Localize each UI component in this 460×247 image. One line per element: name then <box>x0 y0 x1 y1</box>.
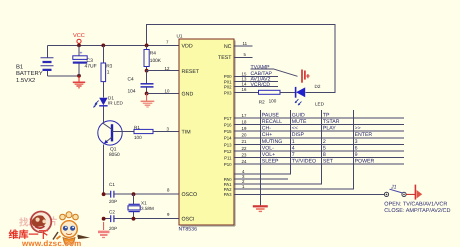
wire switch to port <box>406 193 415 195</box>
svg-text:www.dzsc.com: www.dzsc.com <box>21 239 81 247</box>
matrix row wire pin24 <box>234 159 404 164</box>
wire diagonal to port <box>273 69 298 77</box>
svg-text:P13: P13 <box>224 142 232 147</box>
svg-text:TV/AMP: TV/AMP <box>251 64 271 70</box>
diode D1 IR LED <box>93 98 107 122</box>
svg-text:CLOSE: AMP/TAP/AV2/CD: CLOSE: AMP/TAP/AV2/CD <box>384 208 450 214</box>
svg-text:100K: 100K <box>150 58 162 64</box>
wire PA1 stub <box>234 178 288 180</box>
note text OPEN/CLOSE <box>384 201 450 214</box>
label D1 IR LED <box>108 95 123 105</box>
svg-text:C2: C2 <box>109 209 115 214</box>
matrix column 4 <box>234 110 353 189</box>
svg-text:R4: R4 <box>150 50 156 56</box>
svg-text:C4: C4 <box>128 77 134 83</box>
svg-text:9: 9 <box>355 152 358 158</box>
svg-text:OSCO: OSCO <box>182 192 198 198</box>
svg-text:1: 1 <box>292 139 295 145</box>
svg-text:8: 8 <box>323 152 326 158</box>
svg-text:7: 7 <box>292 152 295 158</box>
capacitor C4 104 <box>141 71 154 94</box>
svg-text:TEST: TEST <box>218 55 232 61</box>
junction battery bottom <box>77 74 81 78</box>
svg-text:IR LED: IR LED <box>108 100 123 105</box>
svg-text:PAUSE: PAUSE <box>262 112 280 118</box>
watermark mascot <box>53 212 90 245</box>
svg-text:23: 23 <box>242 152 247 157</box>
wire OSCI <box>104 212 179 219</box>
wire Q1 base <box>112 131 134 133</box>
label C2 20P <box>109 209 117 231</box>
svg-text:OSCI: OSCI <box>182 217 195 223</box>
label R4 100K <box>150 50 162 64</box>
svg-text:VDD: VDD <box>182 43 193 49</box>
svg-text:CH+: CH+ <box>262 132 273 138</box>
svg-text:24: 24 <box>242 159 247 164</box>
matrix row wire pin18 <box>234 119 404 124</box>
matrix row wire pin21 <box>234 139 404 144</box>
wire VCC rail <box>47 44 179 46</box>
svg-text:SLEEP: SLEEP <box>262 159 279 165</box>
watermark seal <box>31 212 52 233</box>
matrix row wire pin19 <box>234 126 404 131</box>
wire TEST stub pin 5 <box>234 52 252 57</box>
svg-text:100: 100 <box>134 135 142 140</box>
junction VCC/C3 <box>77 44 81 48</box>
label X1 3.58M <box>141 201 154 211</box>
resistor R2 100 <box>259 90 296 94</box>
watermark ghost text <box>19 216 58 229</box>
svg-text:P14: P14 <box>224 136 232 141</box>
svg-text:GUID: GUID <box>292 112 305 118</box>
svg-text:<<: << <box>292 126 298 132</box>
svg-text:P10: P10 <box>224 162 232 167</box>
svg-text:12: 12 <box>165 66 170 71</box>
switch J1 <box>384 185 406 197</box>
ground (battery) <box>73 76 85 88</box>
pin number 7 <box>166 40 169 45</box>
matrix column 2 <box>234 110 291 174</box>
key labels column 4 <box>355 126 375 165</box>
svg-text:C1: C1 <box>109 182 115 187</box>
matrix column 1 <box>259 110 261 206</box>
wire P03 pin 16 <box>234 87 259 92</box>
label R1 100 <box>134 125 142 140</box>
key labels column 1 <box>262 112 282 164</box>
svg-text:R3: R3 <box>106 63 112 69</box>
svg-text:MUTE: MUTE <box>292 119 307 125</box>
svg-text:22: 22 <box>242 146 247 151</box>
svg-text:19: 19 <box>242 126 247 131</box>
wire NC stub pin 11 <box>234 41 252 46</box>
junction X1 bottom <box>132 217 136 221</box>
svg-text:P02: P02 <box>224 85 232 90</box>
label C4 104 <box>128 77 136 95</box>
matrix row wire pin20 <box>234 133 404 138</box>
svg-text:VOL-: VOL- <box>262 145 274 151</box>
svg-text:VCR/CD: VCR/CD <box>251 82 271 88</box>
svg-text:4: 4 <box>292 145 295 151</box>
svg-text:VOL+: VOL+ <box>262 152 275 158</box>
label R2 100 <box>259 98 277 104</box>
svg-text:>>: >> <box>355 126 361 132</box>
resistor R3 <box>101 45 106 97</box>
svg-text:R2: R2 <box>259 99 265 104</box>
svg-text:8050: 8050 <box>109 152 120 158</box>
matrix row wire pin22 <box>234 146 404 151</box>
svg-text:104: 104 <box>128 89 136 95</box>
svg-text:1: 1 <box>107 70 110 76</box>
svg-text:TP: TP <box>323 112 330 118</box>
svg-text:PA3: PA3 <box>224 192 232 197</box>
svg-text:100: 100 <box>269 98 277 103</box>
svg-text:16: 16 <box>242 87 247 92</box>
svg-text:Q1: Q1 <box>110 146 117 152</box>
svg-text:R1: R1 <box>134 125 140 130</box>
ground (reset C4) <box>141 94 155 108</box>
svg-text:DISP: DISP <box>292 132 305 138</box>
junction VCC/R4 <box>145 44 149 48</box>
wire OSCO <box>104 187 179 194</box>
svg-text:ENTER: ENTER <box>355 132 373 138</box>
junction emitter rail / C2 <box>102 217 106 221</box>
svg-text:NC: NC <box>224 44 232 50</box>
svg-text:MUTING: MUTING <box>262 139 282 145</box>
key labels column 3 <box>323 112 340 164</box>
svg-text:P03: P03 <box>224 90 232 95</box>
junction VCC/R3 <box>101 44 105 48</box>
junction GND node <box>145 92 149 96</box>
crystal X1 3.58M <box>128 194 140 219</box>
svg-text:21: 21 <box>242 139 247 144</box>
svg-text:1.5VX2: 1.5VX2 <box>16 77 35 84</box>
svg-text:D2: D2 <box>315 84 321 89</box>
wire P00 pin 15 / net CAB/TAP <box>234 71 278 77</box>
svg-text:17: 17 <box>242 113 247 118</box>
label C1 20P <box>109 182 117 204</box>
watermark url www.dzsc.com <box>21 239 81 247</box>
IC left pin names <box>182 43 200 222</box>
port arrow (red, top) <box>302 70 310 83</box>
svg-text:47UF: 47UF <box>85 63 97 69</box>
svg-text:P11: P11 <box>224 156 232 161</box>
LED D2 <box>295 87 305 105</box>
svg-text:LED: LED <box>315 101 325 106</box>
resistor R1 100 <box>134 129 179 133</box>
label D2 LED <box>315 84 325 106</box>
transistor Q1 <box>98 121 122 195</box>
key labels column 2 <box>292 112 316 164</box>
matrix column 3 <box>234 110 322 184</box>
capacitor C1 20P <box>111 191 114 198</box>
op-amp U1 (IC NT8536 body) <box>177 34 236 233</box>
wire VCC riser to top <box>147 25 335 93</box>
svg-text:20P: 20P <box>109 199 117 204</box>
label B1 BATTERY 1.5VX2 <box>16 63 43 84</box>
svg-text:TV/VIDEO: TV/VIDEO <box>292 159 316 165</box>
svg-text:PLAY: PLAY <box>323 126 336 132</box>
svg-text:VCC: VCC <box>73 33 85 39</box>
label C3 47UF <box>85 58 97 69</box>
wire RESET <box>147 70 179 72</box>
wire battery negative to ground node <box>47 75 79 77</box>
svg-text:P16: P16 <box>224 123 232 128</box>
label Q1 8050 <box>109 146 120 158</box>
wire P02 pin 14 / net VCR/CD <box>234 82 278 88</box>
svg-text:20P: 20P <box>109 226 117 231</box>
svg-text:RECALL: RECALL <box>262 119 282 125</box>
ground (matrix column) <box>253 206 268 211</box>
svg-text:TIM: TIM <box>182 129 191 135</box>
svg-text:P12: P12 <box>224 149 232 154</box>
net label TV/AMP <box>251 64 274 70</box>
pin number 4 <box>242 169 245 174</box>
svg-text:6: 6 <box>355 145 358 151</box>
svg-text:P00: P00 <box>224 74 232 79</box>
pin number 3 (PA1) <box>242 174 245 179</box>
capacitor C2 20P <box>111 215 114 222</box>
svg-text:B1: B1 <box>16 63 23 70</box>
svg-text:RESET: RESET <box>182 69 200 75</box>
svg-text:NT8536: NT8536 <box>179 226 198 232</box>
ground (oscillator rail) <box>98 222 110 238</box>
resistor R4 100K <box>144 45 149 70</box>
capacitor C3 47UF <box>73 45 87 75</box>
power port VCC <box>73 33 85 45</box>
matrix row wire pin17 <box>234 113 404 118</box>
pin number 1 (PA3) <box>242 184 245 189</box>
svg-text:U1: U1 <box>177 34 183 39</box>
svg-text:BATTERY: BATTERY <box>16 70 43 77</box>
pin number 12 <box>165 66 170 71</box>
svg-text:2: 2 <box>323 139 326 145</box>
svg-text:TSTAR: TSTAR <box>323 119 340 125</box>
pin number 10 <box>165 88 170 93</box>
svg-text:POWER: POWER <box>355 159 375 165</box>
junction emitter rail / C1 <box>102 192 106 196</box>
wire PA3 to switch <box>234 193 384 195</box>
matrix row wire pin23 <box>234 152 404 157</box>
svg-text:J1: J1 <box>390 185 397 191</box>
svg-text:11: 11 <box>243 41 248 46</box>
svg-text:20: 20 <box>242 133 247 138</box>
junction RESET node <box>145 69 149 73</box>
wire GND <box>147 93 179 95</box>
label R3 1 <box>106 63 112 75</box>
svg-text:5: 5 <box>323 145 326 151</box>
IC right pin names <box>218 44 232 197</box>
svg-text:3: 3 <box>355 139 358 145</box>
svg-text:SET: SET <box>323 159 334 165</box>
junction X1 top <box>132 192 136 196</box>
svg-text:GND: GND <box>182 91 194 97</box>
svg-text:CH-: CH- <box>262 126 271 132</box>
battery B1 <box>41 45 54 75</box>
svg-text:10: 10 <box>165 88 170 93</box>
port arrow (red, switch) <box>415 185 422 200</box>
pin number 3 <box>167 126 170 131</box>
svg-text:14: 14 <box>242 82 247 87</box>
svg-text:P17: P17 <box>224 116 232 121</box>
watermark text 维库一下 <box>9 229 49 241</box>
pin number 2 (PA2) <box>242 179 245 184</box>
svg-text:3.58M: 3.58M <box>141 206 154 211</box>
svg-text:P15: P15 <box>224 129 232 134</box>
wire P01 pin 13 / net AV1/AV2 <box>234 77 278 83</box>
svg-text:OPEN: TV/CAB/AV1/VCR: OPEN: TV/CAB/AV1/VCR <box>384 201 447 207</box>
svg-text:18: 18 <box>242 119 247 124</box>
